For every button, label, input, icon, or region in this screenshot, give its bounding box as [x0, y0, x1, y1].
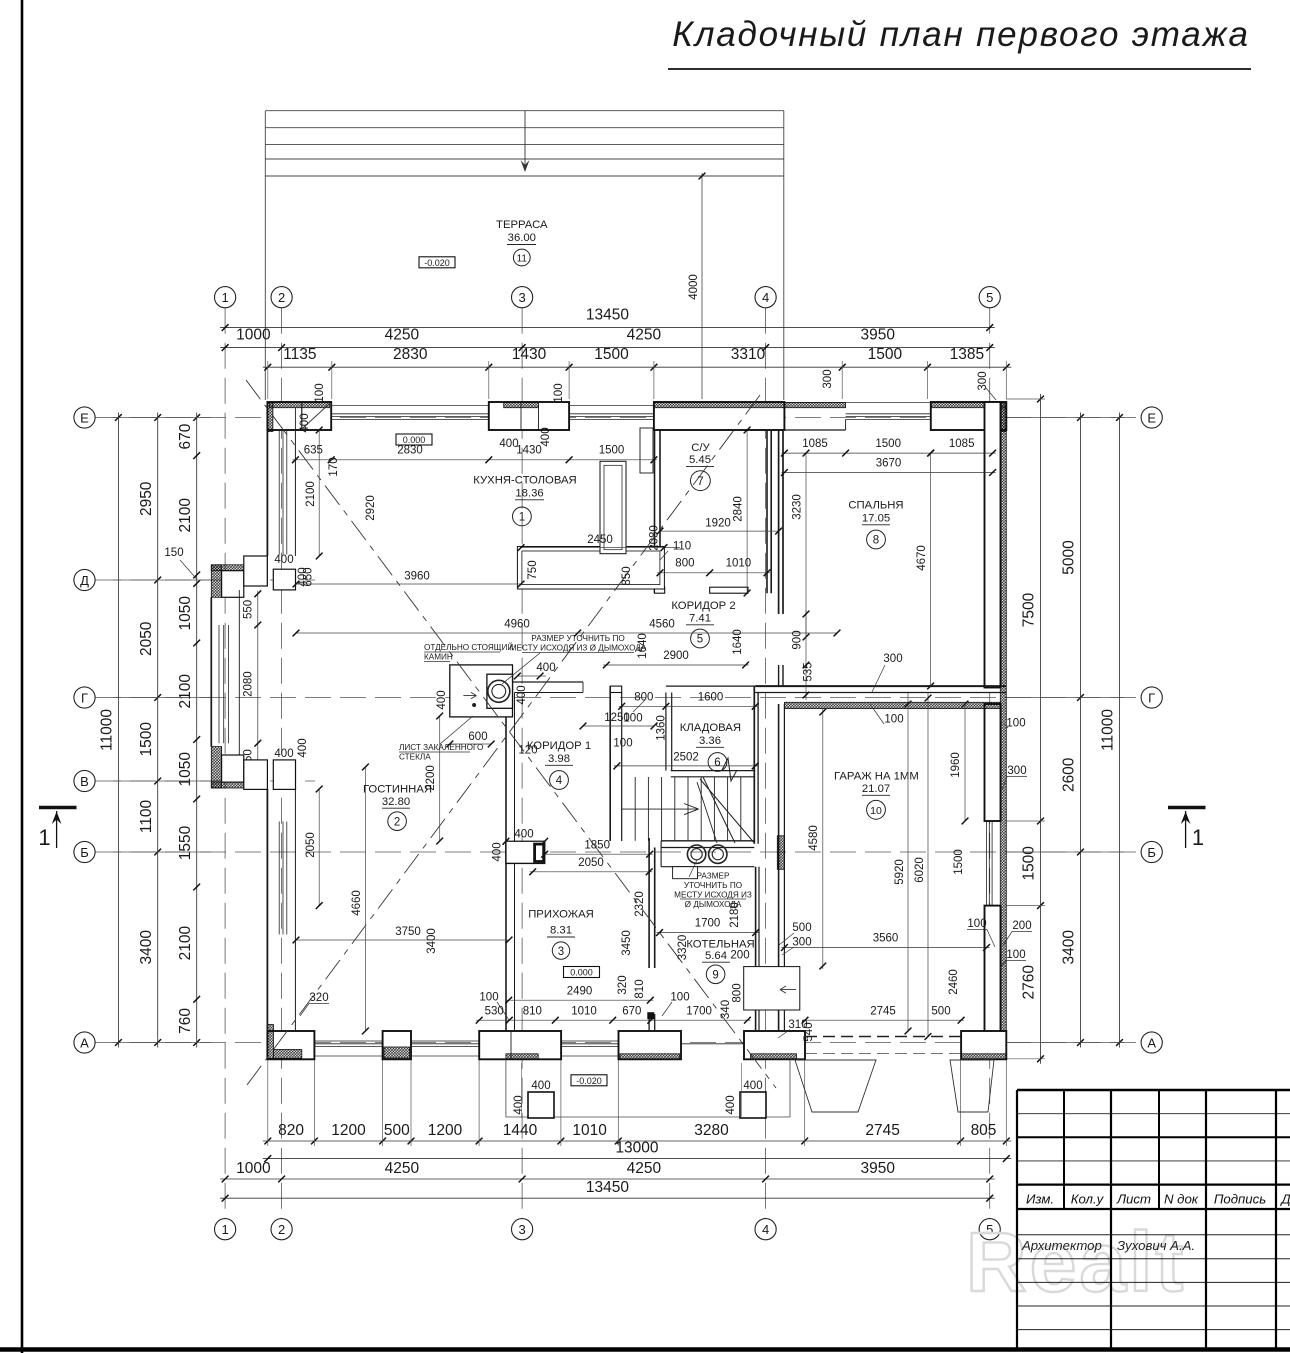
- svg-text:2490: 2490: [567, 985, 593, 997]
- flue inspection box below: [673, 867, 698, 879]
- dim 535 bedroom: [803, 692, 810, 699]
- svg-text:2: 2: [278, 290, 285, 305]
- svg-text:400: 400: [536, 662, 555, 674]
- svg-text:5920: 5920: [894, 859, 906, 885]
- svg-text:3950: 3950: [860, 1160, 895, 1177]
- dim 2450 counter: [521, 547, 680, 549]
- stairs cut diagonal 3: [697, 782, 717, 843]
- svg-text:Г: Г: [1148, 690, 1155, 705]
- wall corridor2 north (SU south) with door 800: [655, 587, 665, 593]
- svg-text:1: 1: [221, 290, 228, 305]
- fireplace СЃquare: [450, 665, 513, 717]
- svg-text:100: 100: [479, 992, 498, 1004]
- svg-text:7: 7: [697, 476, 703, 488]
- svg-text:120: 120: [518, 745, 537, 757]
- svg-text:1135: 1135: [283, 346, 316, 363]
- svg-text:32.80: 32.80: [382, 796, 410, 808]
- door bedroom 900 opening jambs: [778, 665, 780, 686]
- wall storeroom south: [671, 770, 756, 772]
- svg-text:500: 500: [792, 922, 811, 934]
- axis line Б horizontal dashed: [95, 851, 1141, 853]
- svg-text:3.36: 3.36: [699, 735, 721, 747]
- wall right exterior garage upper: [985, 704, 1001, 821]
- svg-text:1010: 1010: [726, 558, 752, 570]
- svg-text:170: 170: [328, 457, 340, 476]
- svg-text:N док: N док: [1164, 1192, 1199, 1207]
- dim chain right 5000 2600 3400: [1080, 413, 1082, 1048]
- garage gate leaf 2: [950, 1060, 994, 1112]
- svg-text:С/У: С/У: [691, 442, 710, 454]
- svg-text:ЛИСТ ЗАКАЛЕННОГО: ЛИСТ ЗАКАЛЕННОГО: [399, 743, 483, 752]
- wall left upper segment (axis2): [266, 429, 268, 556]
- svg-text:Кол.у: Кол.у: [1071, 1192, 1105, 1207]
- svg-text:2950: 2950: [138, 481, 155, 516]
- svg-text:4: 4: [762, 1222, 769, 1237]
- door hall-boiler 810: [648, 1014, 650, 1031]
- axis circle Г left: [74, 687, 95, 708]
- window living-west 2100: [278, 822, 280, 935]
- svg-text:ТЕРРАСА: ТЕРРАСА: [496, 219, 548, 231]
- dim 2100 near wall: [318, 430, 320, 556]
- dim 4560 corridor2: [578, 632, 837, 634]
- svg-text:2502: 2502: [673, 751, 699, 763]
- wall hall east (boiler west): [648, 838, 650, 968]
- svg-text:2050: 2050: [305, 832, 317, 858]
- svg-text:1: 1: [38, 825, 50, 850]
- svg-text:530: 530: [485, 1005, 504, 1017]
- svg-text:100: 100: [553, 383, 565, 402]
- garage gate leaf 1: [795, 1060, 876, 1112]
- dim 2900 corridor2: [603, 664, 748, 666]
- wall bottom-left corner hatch: [267, 1025, 273, 1059]
- corner hatch top-right vertical: [1000, 403, 1006, 432]
- axis circle Е right: [1141, 407, 1162, 428]
- svg-text:УТОЧНИТЬ ПО: УТОЧНИТЬ ПО: [684, 881, 742, 890]
- diagonal mark A: [246, 380, 776, 1088]
- svg-text:820: 820: [278, 1122, 304, 1139]
- dim kitchen window chain 635 2830 1430 1500: [292, 459, 657, 461]
- svg-text:КАМИН: КАМИН: [424, 653, 453, 662]
- svg-text:2100: 2100: [177, 925, 194, 960]
- wall left lower segment: [266, 789, 268, 1031]
- svg-text:Г: Г: [81, 690, 88, 705]
- svg-text:ГАРАЖ НА 1ММ: ГАРАЖ НА 1ММ: [834, 770, 919, 782]
- stairs flight: [634, 777, 636, 841]
- title underline: [668, 68, 1251, 70]
- axis line 1 vertical dashed: [224, 308, 226, 1219]
- axis circle 5 bottom: [979, 1219, 1000, 1240]
- svg-text:СТЕКЛА: СТЕКЛА: [399, 753, 431, 762]
- svg-text:2450: 2450: [587, 534, 613, 546]
- svg-text:320: 320: [617, 975, 629, 994]
- svg-text:100: 100: [1006, 718, 1025, 730]
- svg-text:1: 1: [519, 512, 525, 524]
- svg-text:535: 535: [803, 662, 815, 681]
- wall top pier bedroom right: [931, 402, 1007, 430]
- bay window bottom wall (row В): [211, 747, 221, 788]
- svg-text:100: 100: [1006, 949, 1025, 961]
- svg-text:400: 400: [513, 1095, 525, 1114]
- svg-text:2840: 2840: [733, 496, 745, 522]
- dim 1850 hall opening: [542, 853, 653, 855]
- flue chase band boiler: [661, 866, 754, 868]
- axis circle Е left: [74, 407, 95, 428]
- porch outline: [505, 1059, 507, 1117]
- svg-text:1850: 1850: [584, 839, 610, 851]
- window bay 2080: [218, 625, 220, 743]
- svg-text:200: 200: [730, 950, 749, 962]
- flue pipe circle 1: [687, 845, 705, 863]
- svg-text:36.00: 36.00: [508, 232, 536, 244]
- pier diagonal strokes top wall: [303, 404, 329, 428]
- svg-text:А: А: [80, 1035, 89, 1050]
- svg-text:110: 110: [673, 541, 691, 553]
- terrace right edge: [783, 111, 785, 400]
- svg-text:17.05: 17.05: [862, 513, 890, 525]
- svg-text:400: 400: [492, 842, 504, 861]
- axis circle Б left: [74, 841, 95, 862]
- svg-text:3400: 3400: [1061, 930, 1078, 965]
- dim 2745 garage: [802, 1019, 964, 1021]
- axis circle 3 bottom: [511, 1219, 532, 1240]
- svg-text:3670: 3670: [876, 458, 902, 470]
- svg-text:300: 300: [822, 369, 834, 388]
- dim 4580 garage vertical: [822, 709, 824, 969]
- wall top bedroom window 1500: [784, 402, 1006, 404]
- svg-text:1500: 1500: [594, 346, 629, 363]
- svg-text:1360: 1360: [656, 715, 668, 741]
- dim 3960 kitchen: [296, 583, 521, 585]
- svg-text:1960: 1960: [950, 752, 962, 778]
- terrace left edge: [264, 111, 266, 400]
- svg-text:5000: 5000: [1061, 540, 1078, 575]
- pier block hall east wall bottom: [647, 1012, 654, 1019]
- svg-text:670: 670: [622, 1005, 641, 1017]
- svg-text:МЕСТУ ИСХОДЯ ИЗ Ø ДЫМОХОДА: МЕСТУ ИСХОДЯ ИЗ Ø ДЫМОХОДА: [510, 644, 647, 653]
- wall bottom window 1200 a: [314, 1055, 382, 1057]
- wall bottom pier 3280 segment: [619, 1031, 682, 1059]
- dim row top 1135 2830 1430 1500 3310 1500 1385: [263, 366, 1012, 368]
- dim row bottom 13450: [220, 1197, 995, 1199]
- dim 1920 SU: [660, 530, 779, 532]
- svg-text:3: 3: [518, 1222, 525, 1237]
- svg-text:3560: 3560: [873, 933, 899, 945]
- svg-text:810: 810: [523, 1005, 542, 1017]
- svg-text:-0.020: -0.020: [424, 258, 450, 268]
- wall top window kitchen-1 2830: [331, 405, 489, 407]
- svg-text:2: 2: [394, 816, 400, 828]
- svg-text:СПАЛЬНЯ: СПАЛЬНЯ: [848, 499, 903, 511]
- axis circle 2 top: [271, 287, 292, 308]
- bay window wall west: [210, 597, 212, 746]
- dim 2502 storeroom: [614, 765, 758, 767]
- svg-text:7500: 7500: [1021, 592, 1038, 627]
- svg-text:6020: 6020: [914, 857, 926, 883]
- wall bottom boiler pier: [744, 1031, 805, 1059]
- svg-text:4560: 4560: [649, 619, 675, 631]
- door boiler-room exterior: [681, 1043, 744, 1045]
- svg-text:1085: 1085: [949, 438, 975, 450]
- svg-text:1640: 1640: [732, 629, 744, 655]
- svg-text:4960: 4960: [504, 619, 530, 631]
- svg-text:2050: 2050: [138, 621, 155, 656]
- leader to fireplace flue: [502, 653, 540, 684]
- wall top exterior, pier axis2 corner: [267, 402, 331, 430]
- svg-text:РАЗМЕР УТОЧНИТЬ ПО: РАЗМЕР УТОЧНИТЬ ПО: [531, 634, 624, 643]
- wall right exterior upper (bedroom): [985, 402, 1001, 688]
- svg-text:1500: 1500: [1021, 846, 1038, 881]
- svg-text:1200: 1200: [428, 1122, 463, 1139]
- svg-text:2830: 2830: [397, 445, 423, 457]
- svg-text:1500: 1500: [868, 346, 903, 363]
- wall top window kitchen-2 1500: [569, 405, 654, 407]
- svg-text:100: 100: [613, 738, 632, 750]
- axis circle Д left: [74, 569, 95, 590]
- svg-text:400: 400: [274, 748, 293, 760]
- dim chain bay 550 2080 550: [257, 591, 259, 778]
- svg-text:0.000: 0.000: [570, 968, 593, 978]
- svg-text:Лист: Лист: [1116, 1192, 1151, 1207]
- svg-text:1500: 1500: [138, 722, 155, 757]
- svg-text:Е: Е: [80, 410, 89, 425]
- level mark -0.020 terrace: [419, 257, 455, 268]
- svg-text:300: 300: [977, 371, 989, 390]
- dim 2840 SU vertical: [746, 430, 748, 593]
- svg-text:3280: 3280: [694, 1122, 729, 1139]
- corner hatch top-left vertical: [267, 403, 273, 432]
- svg-text:Б: Б: [1147, 845, 1156, 860]
- svg-text:400: 400: [743, 1080, 762, 1092]
- porch column 2: [740, 1092, 766, 1118]
- svg-text:Ø ДЫМОХОДА: Ø ДЫМОХОДА: [685, 900, 742, 909]
- svg-text:200: 200: [1012, 920, 1031, 932]
- stairs cut diagonals: [700, 779, 754, 843]
- axis circle А left: [74, 1032, 95, 1053]
- svg-text:100: 100: [623, 713, 642, 725]
- svg-text:11000: 11000: [99, 709, 116, 751]
- axis circle А right: [1141, 1032, 1162, 1053]
- witness lines bottom chain: [267, 1060, 269, 1146]
- axis circle 4 top: [755, 287, 776, 308]
- svg-text:МЕСТУ ИСХОДЯ ИЗ: МЕСТУ ИСХОДЯ ИЗ: [674, 891, 752, 900]
- svg-text:100: 100: [314, 383, 326, 402]
- diagonal mark B: [247, 395, 760, 1085]
- break zigzag on storeroom wall: [722, 758, 737, 781]
- terrace entry arrow: [524, 111, 526, 170]
- fireplace flue circle: [488, 680, 510, 702]
- svg-text:810: 810: [634, 979, 646, 998]
- svg-text:5.45: 5.45: [689, 454, 711, 466]
- svg-text:4250: 4250: [385, 1160, 420, 1177]
- svg-text:1430: 1430: [516, 445, 542, 457]
- svg-text:7.41: 7.41: [689, 613, 711, 625]
- dim chain left 670 2100 150 1050 2100 1050 1550 2100 760: [196, 413, 198, 1048]
- svg-text:3230: 3230: [792, 494, 804, 520]
- svg-text:2745: 2745: [865, 1122, 899, 1139]
- axis circle 1 bottom: [215, 1219, 236, 1240]
- svg-text:1700: 1700: [695, 918, 721, 930]
- svg-text:4670: 4670: [916, 545, 928, 571]
- dim row bottom 820 1200 500 1200 1440 1010 3280 2745 805: [263, 1140, 1012, 1142]
- svg-text:2830: 2830: [393, 346, 428, 363]
- svg-text:3310: 3310: [731, 346, 766, 363]
- axis line 5 vertical dashed: [989, 308, 991, 1219]
- svg-text:6: 6: [714, 757, 720, 769]
- svg-text:4: 4: [556, 775, 563, 787]
- svg-text:3320: 3320: [677, 935, 689, 961]
- svg-text:1600: 1600: [698, 691, 724, 703]
- dim chain left 2950 2050 1500 1100 3400: [157, 413, 159, 1048]
- wall storeroom east / stairs east: [753, 686, 755, 844]
- dim 3560 garage: [781, 947, 989, 949]
- level mark 0.000 kitchen: [396, 434, 432, 445]
- window living-north-bay upper: [278, 429, 280, 555]
- dim 3670 bedroom: [781, 472, 995, 474]
- svg-text:5.64: 5.64: [705, 950, 727, 962]
- wall bottom window 1200 b: [411, 1055, 479, 1057]
- svg-text:8: 8: [873, 535, 879, 547]
- garage door opening dashed: [805, 1036, 961, 1038]
- wall bottom window entrance 1010: [561, 1055, 618, 1057]
- svg-text:100: 100: [884, 714, 903, 726]
- svg-text:8.31: 8.31: [550, 925, 572, 937]
- window garage right 1500: [986, 821, 988, 906]
- svg-text:500: 500: [931, 1006, 950, 1018]
- bay window top wall (row Д): [211, 565, 221, 598]
- svg-text:1000: 1000: [236, 1160, 271, 1177]
- svg-text:400: 400: [725, 1095, 737, 1114]
- witness lines right chains: [1006, 417, 1124, 419]
- dim row bottom 1000 4250 4250 3950: [220, 1178, 995, 1180]
- svg-text:Д: Д: [80, 573, 89, 588]
- svg-text:1200: 1200: [331, 1122, 366, 1139]
- wall storeroom north: [666, 685, 755, 687]
- svg-text:400: 400: [436, 690, 448, 709]
- svg-text:3.98: 3.98: [548, 753, 570, 765]
- wall bedroom west upper: [778, 430, 780, 614]
- axis line А horizontal dashed: [95, 1042, 1141, 1044]
- kitchen tall cabinet: [600, 461, 626, 553]
- svg-text:9: 9: [712, 970, 718, 982]
- svg-text:4250: 4250: [385, 327, 420, 344]
- axis line Д horizontal dashed: [95, 579, 315, 581]
- svg-text:600: 600: [468, 731, 487, 743]
- sheet bottom border line: [0, 1347, 1290, 1352]
- axis circle 5 top: [979, 287, 1000, 308]
- svg-text:3400: 3400: [138, 930, 155, 965]
- svg-text:3960: 3960: [404, 571, 430, 583]
- svg-text:КОТЕЛЬНАЯ: КОТЕЛЬНАЯ: [686, 938, 754, 950]
- dim 4000 terrace: [701, 173, 703, 399]
- wall bottom pier 500: [383, 1031, 411, 1059]
- svg-text:400: 400: [297, 738, 309, 757]
- dim chain storeroom 800 1600: [619, 705, 759, 707]
- dim chain bedroom window 1085 1500 1085: [781, 452, 995, 454]
- svg-text:2080: 2080: [649, 525, 661, 551]
- svg-text:2100: 2100: [305, 481, 317, 507]
- svg-text:1920: 1920: [705, 518, 731, 530]
- svg-text:А: А: [1147, 1035, 1156, 1050]
- svg-text:4000: 4000: [688, 274, 700, 300]
- wall corridor1 east upper + storeroom door 800: [610, 686, 622, 692]
- svg-text:Кладочный план первого этажа: Кладочный план первого этажа: [672, 15, 1249, 54]
- wall kitchen south segment: [506, 681, 583, 683]
- svg-text:ПРИХОЖАЯ: ПРИХОЖАЯ: [528, 909, 594, 921]
- dim 6020 garage vertical: [927, 693, 929, 1037]
- svg-text:2460: 2460: [948, 969, 960, 995]
- svg-text:11000: 11000: [1100, 709, 1117, 751]
- axis circle 4 bottom: [755, 1219, 776, 1240]
- svg-text:1050: 1050: [177, 596, 194, 631]
- svg-text:2080: 2080: [243, 671, 255, 697]
- svg-text:1500: 1500: [599, 445, 625, 457]
- svg-text:805: 805: [971, 1122, 997, 1139]
- axis circle Г right: [1141, 687, 1162, 708]
- svg-text:2760: 2760: [1021, 965, 1038, 1000]
- svg-text:320: 320: [309, 992, 328, 1004]
- svg-text:400: 400: [299, 413, 311, 432]
- svg-text:1100: 1100: [138, 799, 155, 833]
- witness porch columns: [521, 1063, 523, 1118]
- svg-text:2100: 2100: [177, 498, 194, 533]
- svg-text:2900: 2900: [663, 650, 689, 662]
- svg-text:2920: 2920: [365, 495, 377, 521]
- svg-text:540: 540: [803, 1022, 815, 1041]
- svg-text:5: 5: [697, 634, 703, 646]
- svg-text:4660: 4660: [351, 890, 363, 916]
- axis circle В left: [74, 770, 95, 791]
- svg-text:100: 100: [670, 992, 689, 1004]
- svg-text:КОРИДОР 2: КОРИДОР 2: [671, 600, 735, 612]
- porch column 1: [528, 1092, 554, 1118]
- axis line Г horizontal dashed: [95, 697, 1141, 699]
- dim row bottom 13000: [263, 1158, 1012, 1160]
- wall SU west partition: [654, 430, 656, 593]
- svg-text:100: 100: [967, 918, 986, 930]
- svg-text:2050: 2050: [578, 857, 604, 869]
- stairs direction arrow: [622, 808, 698, 810]
- svg-text:1385: 1385: [950, 346, 984, 363]
- wall storeroom west: [665, 693, 667, 771]
- dim 1700 boiler: [657, 932, 759, 934]
- wall right exterior garage lower: [985, 906, 1001, 1059]
- svg-text:-0.020: -0.020: [576, 1076, 602, 1086]
- axis line Е horizontal dashed: [95, 417, 1141, 419]
- axis circle 3 top: [511, 287, 532, 308]
- landing wall above flue: [661, 840, 754, 842]
- svg-text:1010: 1010: [571, 1005, 597, 1017]
- leader to flue circle boiler: [689, 860, 697, 877]
- terrace outline top edge lines: [265, 110, 784, 112]
- svg-text:300: 300: [1007, 765, 1026, 777]
- title block table: [1017, 1089, 1290, 1091]
- svg-text:Архитектор: Архитектор: [1021, 1238, 1102, 1253]
- dim 2050 left lower vertical: [318, 789, 320, 906]
- dim chain SU doors 800 1010: [657, 572, 770, 574]
- dim 2200 living vertical: [439, 716, 441, 841]
- svg-text:500: 500: [384, 1122, 410, 1139]
- dim 2050 hall: [530, 871, 653, 873]
- svg-text:11: 11: [517, 254, 528, 265]
- svg-text:150: 150: [164, 547, 183, 559]
- svg-text:Подпись: Подпись: [1214, 1192, 1266, 1207]
- axis circle 2 bottom: [271, 1219, 292, 1240]
- svg-text:400: 400: [274, 554, 293, 566]
- svg-text:400: 400: [516, 685, 528, 704]
- svg-text:13450: 13450: [586, 307, 629, 324]
- section mark 1 right: [1168, 806, 1206, 810]
- svg-text:800: 800: [675, 558, 694, 570]
